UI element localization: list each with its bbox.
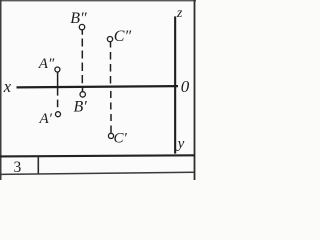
- title block bottom line: [0, 172, 194, 174]
- svg-text:z: z: [176, 6, 183, 21]
- frame left border: [0, 0, 2, 180]
- svg-text:B″: B″: [70, 10, 87, 27]
- node A1 (A prime): [56, 112, 61, 117]
- svg-text:0: 0: [181, 77, 190, 96]
- svg-text:C″: C″: [114, 28, 132, 45]
- wire A solid segment: [57, 72, 59, 96]
- svg-text:y: y: [176, 136, 185, 152]
- node C1 (C prime): [108, 133, 113, 138]
- node C2 (C double prime): [107, 37, 112, 42]
- wire B tick below axis: [82, 87, 84, 92]
- wire B dash segments: [81, 30, 83, 83]
- svg-text:C′: C′: [114, 131, 128, 147]
- svg-text:A′: A′: [39, 111, 53, 127]
- node B1 (B prime): [80, 92, 85, 97]
- node A2 (A double prime): [55, 67, 60, 72]
- svg-text:B′: B′: [74, 98, 88, 115]
- svg-text:x: x: [3, 77, 12, 96]
- frame top border: [0, 0, 196, 1]
- svg-text:3: 3: [14, 159, 22, 176]
- node B2 (B double prime): [79, 24, 84, 29]
- title block top line: [0, 155, 195, 156]
- svg-text:A″: A″: [38, 56, 55, 72]
- wire C dash segments: [110, 42, 113, 133]
- wire A dash: [57, 100, 59, 108]
- title block divider: [38, 156, 40, 174]
- z-y axis: [174, 16, 176, 153]
- frame right border: [194, 0, 196, 180]
- x-axis: [17, 86, 179, 87]
